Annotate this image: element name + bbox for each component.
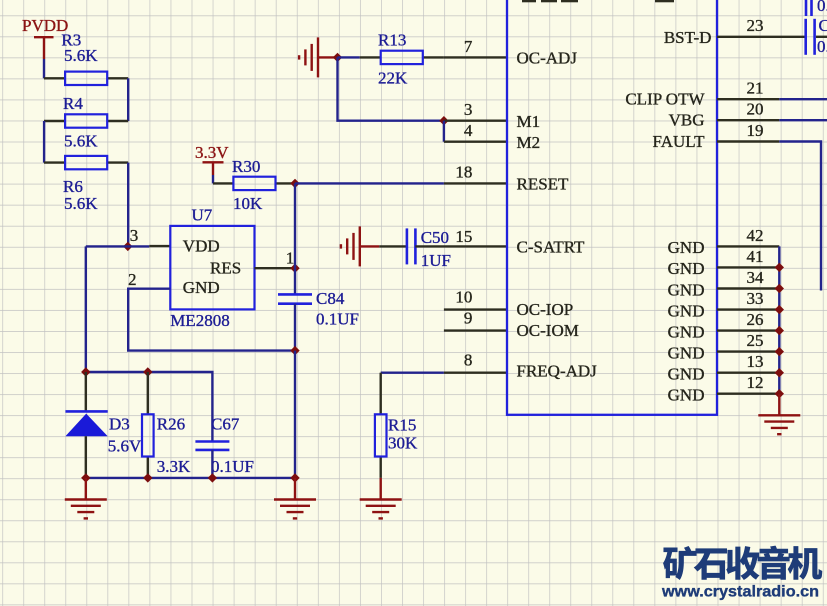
node rail junction B [143, 367, 152, 376]
svg-text:ME2808: ME2808 [170, 311, 230, 330]
wire [338, 56, 360, 58]
svg-text:GND: GND [668, 322, 705, 341]
resistor R4 [44, 114, 128, 127]
svg-text:34: 34 [747, 268, 765, 287]
U7 pin 3 stub [149, 245, 170, 247]
resistor R30 [213, 177, 295, 190]
capacitor C84 [278, 294, 312, 303]
ground [341, 226, 379, 266]
svg-text:15: 15 [455, 227, 472, 246]
wire [211, 450, 213, 478]
svg-text:BST-D: BST-D [664, 28, 712, 47]
svg-text:20: 20 [747, 100, 764, 119]
svg-text:3.3K: 3.3K [157, 457, 191, 476]
node GND bus junction [775, 347, 784, 356]
svg-text:GND: GND [668, 343, 705, 362]
pin 33 stub [717, 308, 779, 310]
U7 pin 2 wire [128, 289, 295, 351]
svg-text:12: 12 [747, 373, 764, 392]
node gnd rail junction D [290, 473, 299, 482]
svg-text:GND: GND [668, 386, 705, 405]
resistor R15 [375, 373, 387, 478]
svg-text:C6: C6 [819, 16, 827, 35]
ground [299, 37, 337, 77]
svg-text:OC-IOP: OC-IOP [517, 300, 574, 319]
svg-text:C84: C84 [316, 289, 345, 308]
pin 9 stub [444, 329, 507, 331]
wire [43, 59, 45, 78]
wire [294, 268, 296, 294]
svg-text:C67: C67 [211, 414, 240, 433]
pin 18 stub [444, 182, 507, 184]
svg-text:VBG: VBG [669, 111, 705, 130]
power PVDD [22, 16, 68, 59]
watermark CJK text [663, 546, 822, 580]
wire GND bus [778, 246, 780, 393]
wire [338, 57, 444, 120]
svg-text:2: 2 [128, 270, 137, 289]
ground [360, 478, 402, 519]
svg-text:OC-IOM: OC-IOM [517, 321, 579, 340]
svg-text:VDD: VDD [183, 237, 220, 256]
svg-text:25: 25 [747, 331, 764, 350]
svg-text:22K: 22K [378, 69, 408, 88]
node gnd rail junction A [81, 473, 90, 482]
svg-text:M1: M1 [517, 112, 541, 131]
svg-text:30K: 30K [388, 433, 418, 452]
ground [758, 394, 800, 435]
wire [86, 372, 213, 442]
wire [294, 183, 296, 268]
op-amp U7 box [170, 226, 254, 310]
pin 13 stub [717, 372, 779, 374]
resistor R3 [44, 72, 128, 85]
svg-text:CLIP OTW: CLIP OTW [625, 90, 705, 109]
node M1 junction [439, 116, 448, 125]
node OC-ADJ junction [333, 53, 342, 62]
svg-text:R30: R30 [232, 157, 260, 176]
svg-text:GND: GND [668, 280, 705, 299]
node RES junction [290, 264, 299, 273]
svg-text:0.1UF: 0.1UF [211, 457, 254, 476]
pin 15 stub [415, 245, 507, 247]
svg-text:19: 19 [747, 121, 764, 140]
wire [294, 351, 296, 478]
capacitor C50 [407, 228, 416, 264]
wire [816, 36, 827, 38]
wire [127, 163, 129, 247]
svg-text:5.6K: 5.6K [64, 194, 98, 213]
wire [85, 246, 87, 372]
wire [43, 121, 45, 163]
svg-text:13: 13 [747, 352, 764, 371]
svg-text:21: 21 [747, 79, 764, 98]
svg-text:D3: D3 [109, 415, 130, 434]
svg-text:0.: 0. [817, 37, 827, 56]
pin 12 stub [717, 393, 779, 395]
svg-text:3: 3 [130, 226, 139, 245]
pin 26 stub [717, 329, 779, 331]
svg-text:R13: R13 [378, 31, 406, 50]
power 3.3V [195, 143, 229, 175]
wire [294, 304, 296, 351]
svg-text:23: 23 [747, 16, 764, 35]
svg-text:C-SATRT: C-SATRT [517, 238, 586, 257]
svg-text:GND: GND [668, 238, 705, 257]
svg-text:10K: 10K [233, 194, 263, 213]
node GND bus junction [775, 263, 784, 272]
wire [443, 121, 445, 142]
wire [212, 175, 214, 183]
pin 8 stub [444, 372, 507, 374]
resistor R6 [44, 156, 128, 169]
IC U-main box [507, 0, 717, 415]
wire [381, 372, 444, 374]
U7 pin 1 stub [255, 267, 296, 269]
svg-text:0.: 0. [817, 0, 827, 15]
wire [86, 245, 150, 247]
svg-text:OC-ADJ: OC-ADJ [517, 49, 578, 68]
svg-text:GND: GND [183, 278, 220, 297]
svg-text:7: 7 [464, 37, 473, 56]
node 3 junction [123, 242, 132, 251]
wire [86, 477, 295, 479]
ground [274, 478, 316, 519]
svg-text:R26: R26 [157, 414, 185, 433]
svg-text:1: 1 [286, 249, 295, 268]
node rail junction A [81, 367, 90, 376]
svg-text:3: 3 [464, 100, 473, 119]
svg-text:RESET: RESET [517, 175, 570, 194]
svg-text:5.6V: 5.6V [108, 437, 142, 456]
capacitor top-edge [806, 0, 812, 16]
svg-text:8: 8 [464, 350, 473, 369]
node RESET junction [290, 179, 299, 188]
svg-text:GND: GND [668, 365, 705, 384]
node GND bus junction [775, 368, 784, 377]
wire [779, 119, 827, 121]
svg-text:FAULT: FAULT [653, 132, 706, 151]
pin 21 stub [717, 98, 779, 100]
pin 41 stub [717, 266, 779, 268]
svg-text:41: 41 [747, 247, 764, 266]
diode D3 [65, 372, 107, 478]
svg-text:www.crystalradio.cn: www.crystalradio.cn [661, 584, 819, 601]
pin 4 stub [444, 140, 507, 142]
pin 20 stub [717, 119, 779, 121]
svg-text:4: 4 [464, 121, 473, 140]
pin 19 stub [717, 140, 779, 142]
svg-text:26: 26 [747, 310, 764, 329]
svg-text:18: 18 [455, 163, 472, 182]
svg-text:R15: R15 [388, 416, 416, 435]
svg-text:M2: M2 [517, 133, 541, 152]
wire [779, 98, 827, 100]
svg-text:FREQ-ADJ: FREQ-ADJ [517, 361, 598, 380]
svg-text:U7: U7 [192, 206, 213, 225]
svg-text:GND: GND [668, 301, 705, 320]
svg-text:33: 33 [747, 289, 764, 308]
node GND bus junction [775, 389, 784, 398]
pin 10 stub [444, 308, 507, 310]
pin 7 stub [444, 56, 507, 58]
svg-text:9: 9 [464, 309, 473, 328]
svg-text:5.6K: 5.6K [64, 46, 98, 65]
node gnd rail junction B [143, 473, 152, 482]
ground [65, 478, 107, 519]
svg-text:5.6K: 5.6K [64, 131, 98, 150]
svg-text:0.1UF: 0.1UF [316, 310, 359, 329]
svg-text:R4: R4 [63, 94, 83, 113]
svg-text:RES: RES [210, 258, 241, 277]
wire [127, 78, 129, 121]
svg-text:3.3V: 3.3V [195, 143, 229, 162]
pin 3 stub [444, 119, 507, 121]
pin 25 stub [717, 350, 779, 352]
svg-text:42: 42 [747, 226, 764, 245]
wire [295, 182, 444, 184]
svg-text:C50: C50 [421, 228, 449, 247]
svg-text:10: 10 [455, 288, 472, 307]
resistor R13 [360, 51, 444, 64]
resistor R26 [142, 372, 154, 478]
node GND bus junction [775, 326, 784, 335]
pin 42 stub [717, 245, 779, 247]
capacitor C67 [195, 442, 229, 450]
node gnd rail junction C [208, 473, 217, 482]
capacitor C-bst [806, 19, 815, 55]
wire [779, 142, 821, 291]
node GND-net junction [290, 346, 299, 355]
wire [379, 245, 407, 247]
node GND bus junction [775, 305, 784, 314]
svg-text:GND: GND [668, 259, 705, 278]
cut text fragment [522, 0, 674, 2]
pin 23 stub [717, 36, 805, 38]
node GND bus junction [775, 284, 784, 293]
svg-text:1UF: 1UF [421, 251, 451, 270]
pin 34 stub [717, 287, 779, 289]
